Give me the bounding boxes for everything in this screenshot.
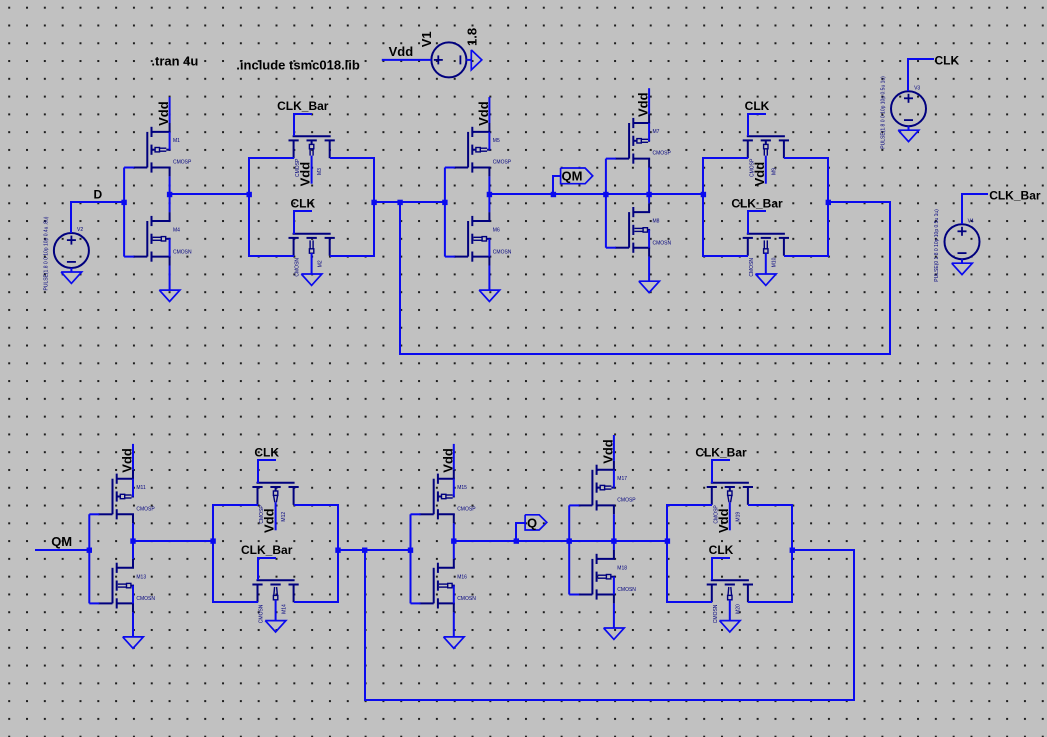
wire (961, 259, 963, 263)
node CLK_Bar (731, 196, 783, 234)
wire (374, 201, 445, 203)
ground (159, 290, 180, 301)
node Vdd (752, 156, 767, 187)
transistor M13 (98, 559, 155, 612)
wire junction (408, 548, 413, 553)
voltage source V4 (934, 209, 980, 282)
node CLK (254, 445, 279, 483)
svg-text:CMOSN: CMOSN (713, 604, 719, 623)
wire (489, 193, 703, 195)
transistor M3 (289, 136, 335, 177)
svg-text:M19: M19 (735, 512, 741, 522)
wire junction (790, 548, 795, 553)
svg-text:CLK_Bar: CLK_Bar (989, 188, 1041, 202)
transistor M11 (98, 470, 155, 523)
wire (445, 168, 455, 257)
wire (488, 176, 490, 212)
wire (71, 202, 124, 233)
svg-text:Q: Q (527, 516, 537, 531)
svg-text:Vdd: Vdd (120, 448, 135, 473)
svg-text:V3: V3 (914, 85, 920, 91)
svg-text:CMOSP: CMOSP (136, 506, 155, 512)
node Q tap (514, 538, 519, 543)
svg-text:M16: M16 (457, 574, 467, 580)
wire (249, 158, 294, 256)
wire junction (362, 548, 367, 553)
wire (132, 586, 134, 604)
svg-text:M5: M5 (493, 138, 500, 144)
svg-text:M3: M3 (317, 168, 323, 175)
svg-text:CMOSN: CMOSN (457, 596, 476, 602)
wire junction (451, 538, 456, 543)
svg-text:CMOSN: CMOSN (493, 249, 512, 255)
wire junction (567, 538, 572, 543)
node Vdd (298, 156, 313, 187)
transistor M19 (707, 483, 753, 524)
svg-text:M18: M18 (617, 566, 627, 572)
transistor M20 (707, 580, 753, 623)
wire junction (701, 192, 706, 197)
wire (516, 523, 525, 541)
transistor M1 (133, 123, 192, 176)
node Vdd (440, 444, 455, 473)
wire (453, 586, 455, 604)
wire (70, 268, 72, 272)
transistor M6 (454, 212, 512, 265)
wire junction (87, 548, 92, 553)
wire (908, 59, 934, 91)
svg-text:Vdd: Vdd (389, 44, 414, 59)
ground (265, 621, 286, 632)
wire (453, 523, 455, 559)
ground (123, 637, 144, 648)
ground (639, 281, 660, 292)
voltage source V3 (881, 76, 927, 149)
wire (35, 549, 89, 551)
wire (488, 266, 490, 291)
svg-text:CMOSN: CMOSN (617, 587, 636, 593)
transistor M10 (743, 234, 789, 277)
svg-text:V1: V1 (419, 31, 434, 47)
wire (606, 159, 616, 248)
wire feedback (365, 550, 854, 700)
wire junction (665, 538, 670, 543)
node CLK_Bar (241, 543, 293, 580)
node Vdd (120, 444, 135, 473)
svg-text:Vdd: Vdd (440, 448, 455, 473)
svg-text:Vdd: Vdd (476, 101, 491, 126)
voltage source V2 (43, 216, 89, 290)
ground (952, 263, 973, 274)
svg-text:.include tsmc018.lib: .include tsmc018.lib (236, 57, 360, 72)
ground (471, 50, 482, 70)
svg-text:CMOSN: CMOSN (749, 258, 755, 277)
wire junction (397, 200, 402, 205)
svg-text:Vdd: Vdd (716, 508, 731, 533)
node CLK (709, 543, 734, 580)
wire (962, 194, 988, 224)
ground (604, 628, 625, 639)
svg-text:M15: M15 (457, 485, 467, 491)
node Vdd (156, 97, 171, 126)
svg-text:CMOSN: CMOSN (259, 604, 265, 623)
wire (124, 168, 134, 257)
wire (613, 603, 615, 628)
wire (169, 176, 171, 212)
wire (133, 540, 213, 542)
wire junction (247, 192, 252, 197)
wire feedback (400, 202, 890, 354)
svg-text:.tran 4u: .tran 4u (151, 53, 198, 68)
svg-text:QM: QM (51, 534, 72, 549)
wire (311, 253, 313, 274)
wire (569, 505, 579, 594)
node .include directive (236, 57, 360, 72)
node Vdd (600, 435, 615, 464)
transistor M7 (615, 114, 672, 167)
wire junction (210, 538, 215, 543)
node CLK_Bar (989, 188, 1041, 202)
ground (479, 290, 500, 301)
svg-text:PULSE(1.8 0 0 10p 10p 0.5u 1u): PULSE(1.8 0 0 10p 10p 0.5u 1u) (881, 76, 887, 149)
wire (294, 505, 338, 602)
svg-text:M1: M1 (173, 138, 180, 144)
node Vdd (716, 502, 731, 533)
wire junction (335, 548, 340, 553)
wire junction (603, 192, 608, 197)
wire (648, 257, 650, 282)
svg-text:CLK: CLK (745, 99, 770, 113)
ground (756, 274, 777, 285)
wire (213, 505, 258, 602)
node Vdd (636, 88, 651, 117)
svg-text:CMOSP: CMOSP (617, 498, 636, 504)
wire junction (611, 538, 616, 543)
wire (613, 514, 615, 550)
svg-text:CMOSN: CMOSN (173, 249, 192, 255)
wire junction (371, 200, 376, 205)
transistor M14 (252, 580, 298, 623)
wire (169, 266, 171, 291)
ground (444, 637, 465, 648)
wire (613, 577, 615, 595)
wire (784, 158, 828, 256)
node CLK (935, 54, 960, 68)
svg-text:CMOSN: CMOSN (653, 240, 672, 246)
wire (703, 158, 748, 256)
svg-text:Vdd: Vdd (298, 162, 313, 187)
voltage source V1 (419, 28, 479, 77)
wire (338, 549, 410, 551)
ground (898, 130, 919, 141)
svg-text:Vdd: Vdd (262, 508, 277, 533)
svg-text:CLK_Bar: CLK_Bar (695, 445, 747, 459)
node CLK_Bar (277, 99, 329, 136)
svg-text:D: D (94, 187, 103, 201)
svg-text:CMOSP: CMOSP (457, 506, 476, 512)
transistor M9 (743, 136, 789, 177)
wire junction (442, 200, 447, 205)
svg-text:M8: M8 (653, 219, 660, 225)
svg-text:1.8: 1.8 (464, 28, 479, 46)
svg-text:CLK_Bar: CLK_Bar (731, 196, 783, 210)
wire junction (130, 538, 135, 543)
node CLK (290, 196, 315, 234)
node .tran directive (151, 53, 198, 68)
transistor M15 (420, 470, 477, 523)
svg-text:CMOSP: CMOSP (653, 151, 672, 157)
transistor M8 (615, 203, 672, 256)
node Vdd (476, 97, 491, 126)
svg-text:M2: M2 (317, 260, 323, 267)
wire junction (167, 192, 172, 197)
svg-text:CLK: CLK (254, 445, 279, 459)
svg-text:CMOSP: CMOSP (173, 160, 192, 166)
svg-text:CLK: CLK (290, 196, 315, 210)
wire junction (487, 192, 492, 197)
wire junction (646, 192, 651, 197)
svg-text:Vdd: Vdd (600, 439, 615, 464)
svg-text:M12: M12 (281, 512, 287, 522)
node CLK_Bar (695, 445, 747, 483)
wire (488, 239, 490, 257)
wire (466, 59, 471, 61)
wire (330, 158, 374, 256)
transistor M5 (454, 123, 512, 176)
node D input (121, 200, 126, 205)
svg-text:M11: M11 (136, 485, 146, 491)
transistor M12 (252, 483, 298, 524)
svg-text:V4: V4 (968, 218, 974, 224)
wire (89, 514, 99, 603)
wire (275, 600, 277, 621)
svg-text:CLK: CLK (709, 543, 734, 557)
node D (94, 187, 103, 201)
svg-text:Vdd: Vdd (752, 162, 767, 187)
svg-text:QM: QM (562, 169, 583, 184)
svg-text:CLK_Bar: CLK_Bar (277, 99, 329, 113)
svg-text:M13: M13 (136, 574, 146, 580)
wire (453, 612, 455, 637)
wire (169, 239, 171, 257)
svg-text:PULSE(1.8 0 0 10p 10p 0.4u .8u: PULSE(1.8 0 0 10p 10p 0.4u .8u) (43, 216, 49, 290)
wire (553, 176, 561, 194)
wire (908, 126, 910, 130)
wire (648, 230, 650, 248)
wire (729, 600, 731, 621)
svg-text:CLK: CLK (935, 54, 960, 68)
node QM flag (561, 168, 593, 184)
ground (301, 274, 322, 285)
svg-text:M14: M14 (281, 604, 287, 614)
transistor M16 (420, 559, 477, 612)
svg-text:M17: M17 (617, 476, 627, 482)
svg-text:M20: M20 (736, 604, 742, 614)
transistor M2 (289, 234, 335, 277)
transistor M17 (578, 461, 636, 514)
wire (453, 479, 455, 497)
node Vdd (262, 502, 277, 533)
node QM tap (551, 192, 556, 197)
wire (667, 505, 712, 602)
svg-text:CMOSN: CMOSN (136, 596, 155, 602)
ground (61, 272, 82, 283)
wire (132, 612, 134, 637)
wire (648, 168, 650, 204)
wire (170, 193, 249, 195)
wire (411, 514, 421, 603)
svg-text:M6: M6 (493, 228, 500, 234)
node QM (51, 534, 72, 549)
wire (488, 132, 490, 150)
svg-text:M9: M9 (771, 168, 777, 175)
svg-text:M10: M10 (772, 257, 778, 267)
wire (132, 523, 134, 559)
svg-text:V2: V2 (77, 227, 83, 233)
svg-text:M4: M4 (173, 228, 180, 234)
svg-text:Vdd: Vdd (156, 101, 171, 126)
wire (454, 540, 667, 542)
svg-text:M7: M7 (653, 129, 660, 135)
node Vdd (389, 44, 414, 59)
node CLK (745, 99, 770, 136)
wire (648, 123, 650, 141)
svg-text:CMOSP: CMOSP (493, 160, 512, 166)
node Q flag (525, 515, 547, 531)
wire (169, 132, 171, 150)
wire (765, 253, 767, 274)
wire (748, 505, 792, 602)
svg-text:PULSE(0 1.8 0 10p 10p 0.5u 1u): PULSE(0 1.8 0 10p 10p 0.5u 1u) (934, 209, 940, 282)
svg-text:Vdd: Vdd (636, 92, 651, 117)
transistor M18 (578, 550, 636, 603)
ground (720, 621, 741, 632)
wire (613, 470, 615, 488)
svg-text:CLK_Bar: CLK_Bar (241, 543, 293, 557)
wire (132, 479, 134, 497)
svg-text:CMOSN: CMOSN (295, 258, 301, 277)
wire (382, 59, 432, 61)
transistor M4 (133, 212, 192, 265)
wire junction (826, 200, 831, 205)
